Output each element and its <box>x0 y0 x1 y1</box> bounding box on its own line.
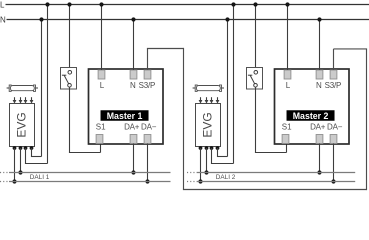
net DALI 2 da+ line <box>187 172 355 174</box>
svg-text:Master 1: Master 1 <box>107 111 143 121</box>
U2 pin L <box>284 70 291 79</box>
svg-text:DA+: DA+ <box>124 122 140 131</box>
svg-text:S1: S1 <box>96 122 106 131</box>
svg-text:S3/P: S3/P <box>325 81 342 90</box>
EVG1 lamp pin arrow 1 <box>13 97 17 103</box>
lamp LA1 (fluorescent tube) <box>7 85 38 91</box>
junction EVG2 da+ <box>204 170 208 174</box>
EVG2 lamp pin arrow 3 <box>210 97 214 103</box>
junction N feed U2 <box>317 17 321 21</box>
lamp LA2 (fluorescent tube) <box>193 85 224 91</box>
junction EVG1 da- <box>12 179 16 183</box>
wire L mains line <box>6 4 369 6</box>
switch S1 (pushbutton) <box>61 68 77 90</box>
EVG1 pin 4 terminal <box>30 146 34 150</box>
EVG2 lamp pin arrow 2 <box>205 97 209 103</box>
svg-text:Master 2: Master 2 <box>293 111 329 121</box>
net DALI 2 da- line <box>187 181 355 183</box>
svg-text:EVG: EVG <box>200 112 214 137</box>
EVG1 lamp pin arrow 2 <box>19 97 23 103</box>
U2 name plate Master 2 <box>287 111 335 122</box>
U1 pin S3/P <box>144 70 151 79</box>
svg-text:N: N <box>130 81 136 90</box>
wire L to switch S1 <box>69 5 71 71</box>
junction U2 DA- bus <box>331 179 335 183</box>
U1 pin N <box>130 70 137 79</box>
wire L to U2 L pin <box>287 5 289 71</box>
U2 pin N <box>316 70 323 79</box>
wire N mains line <box>7 19 369 21</box>
junction L drop 2 <box>231 2 235 6</box>
wire EVG1 pin3 to L (outer loop) <box>25 5 48 164</box>
svg-text:DA−: DA− <box>327 122 343 131</box>
U2 pin DA- <box>330 135 337 144</box>
junction U1 DA- bus <box>145 179 149 183</box>
junction U1 DA+ bus <box>131 170 135 174</box>
U1 name plate Master 1 <box>101 111 149 122</box>
U2 pin S1 <box>282 135 289 144</box>
EVG1 pin 1 terminal <box>13 146 17 150</box>
wire EVG2 pin3 to L (outer loop) <box>211 5 234 164</box>
U1 pin L <box>98 70 105 79</box>
junction L switch 1 <box>67 2 71 6</box>
U1 pin DA+ <box>130 135 137 144</box>
net DALI 1 da+ line <box>0 172 171 174</box>
junction EVG1 da+ <box>18 170 22 174</box>
wire EVG2 pin4 to N (inner loop) <box>217 20 228 157</box>
wire EVG1 pin1 to DALI da- line <box>14 148 16 182</box>
svg-text:N: N <box>0 15 6 24</box>
wire L to U1 L pin <box>101 5 103 71</box>
svg-text:DALI 2: DALI 2 <box>216 174 236 181</box>
junction N drop 1 <box>39 17 43 21</box>
EVG1 lamp pin arrow 3 <box>24 97 28 103</box>
EVG1 pin 2 terminal <box>19 146 23 150</box>
svg-text:EVG: EVG <box>14 112 28 137</box>
switch S2 (pushbutton) <box>247 68 263 90</box>
junction L feed U1 <box>99 2 103 6</box>
svg-text:L: L <box>100 81 105 90</box>
junction N feed U1 <box>131 17 135 21</box>
svg-text:DA−: DA− <box>141 122 157 131</box>
junction EVG2 da- <box>198 179 202 183</box>
wire EVG2 pin1 to DALI da- line <box>200 148 202 182</box>
wire U1 DA- to bus <box>147 144 149 182</box>
svg-text:S3/P: S3/P <box>139 81 156 90</box>
EVG2 pin 2 terminal <box>205 146 209 150</box>
wire S3/P interconnect U1 to U2 <box>147 48 367 190</box>
svg-text:L: L <box>0 0 5 9</box>
junction L feed U2 <box>285 2 289 6</box>
DALI master U2 box <box>275 69 350 144</box>
ballast EVG1 (electronic control gear) <box>10 104 35 147</box>
EVG2 pin 4 terminal <box>216 146 220 150</box>
svg-text:L: L <box>286 81 291 90</box>
svg-text:S1: S1 <box>282 122 292 131</box>
EVG1 pin 3 terminal <box>24 146 28 150</box>
svg-text:DALI 1: DALI 1 <box>30 174 50 181</box>
junction N drop 2 <box>225 17 229 21</box>
U1 pin DA- <box>144 135 151 144</box>
svg-text:DA+: DA+ <box>310 122 326 131</box>
wire N to U2 N pin <box>319 20 321 71</box>
junction L drop 1 <box>45 2 49 6</box>
wire N to U1 N pin <box>133 20 135 71</box>
U1 pin S1 <box>96 135 103 144</box>
U2 pin S3/P <box>330 70 337 79</box>
junction U2 DA+ bus <box>317 170 321 174</box>
wire switch S1 to Master 1 S1 pin <box>69 87 101 152</box>
wire L to switch S2 <box>255 5 257 71</box>
U2 pin DA+ <box>316 135 323 144</box>
net DALI 1 da- line <box>0 181 171 183</box>
wire U1 DA+ to bus <box>133 144 135 173</box>
EVG2 pin 3 terminal <box>210 146 214 150</box>
EVG2 pin 1 terminal <box>199 146 203 150</box>
wire EVG1 pin2 to DALI da+ line <box>20 148 22 173</box>
EVG2 lamp pin arrow 1 <box>199 97 203 103</box>
DALI master U1 box <box>89 69 164 144</box>
EVG2 lamp pin arrow 4 <box>216 97 220 103</box>
ballast EVG2 (electronic control gear) <box>196 104 221 147</box>
svg-text:N: N <box>316 81 322 90</box>
junction L switch 2 <box>253 2 257 6</box>
wire EVG1 pin4 to N (inner loop) <box>31 20 42 157</box>
wire U2 DA- to bus <box>333 144 335 182</box>
wire switch S2 to Master 2 S1 pin <box>255 87 287 152</box>
wire U2 DA+ to bus <box>319 144 321 173</box>
EVG1 lamp pin arrow 4 <box>30 97 34 103</box>
wire EVG2 pin2 to DALI da+ line <box>206 148 208 173</box>
